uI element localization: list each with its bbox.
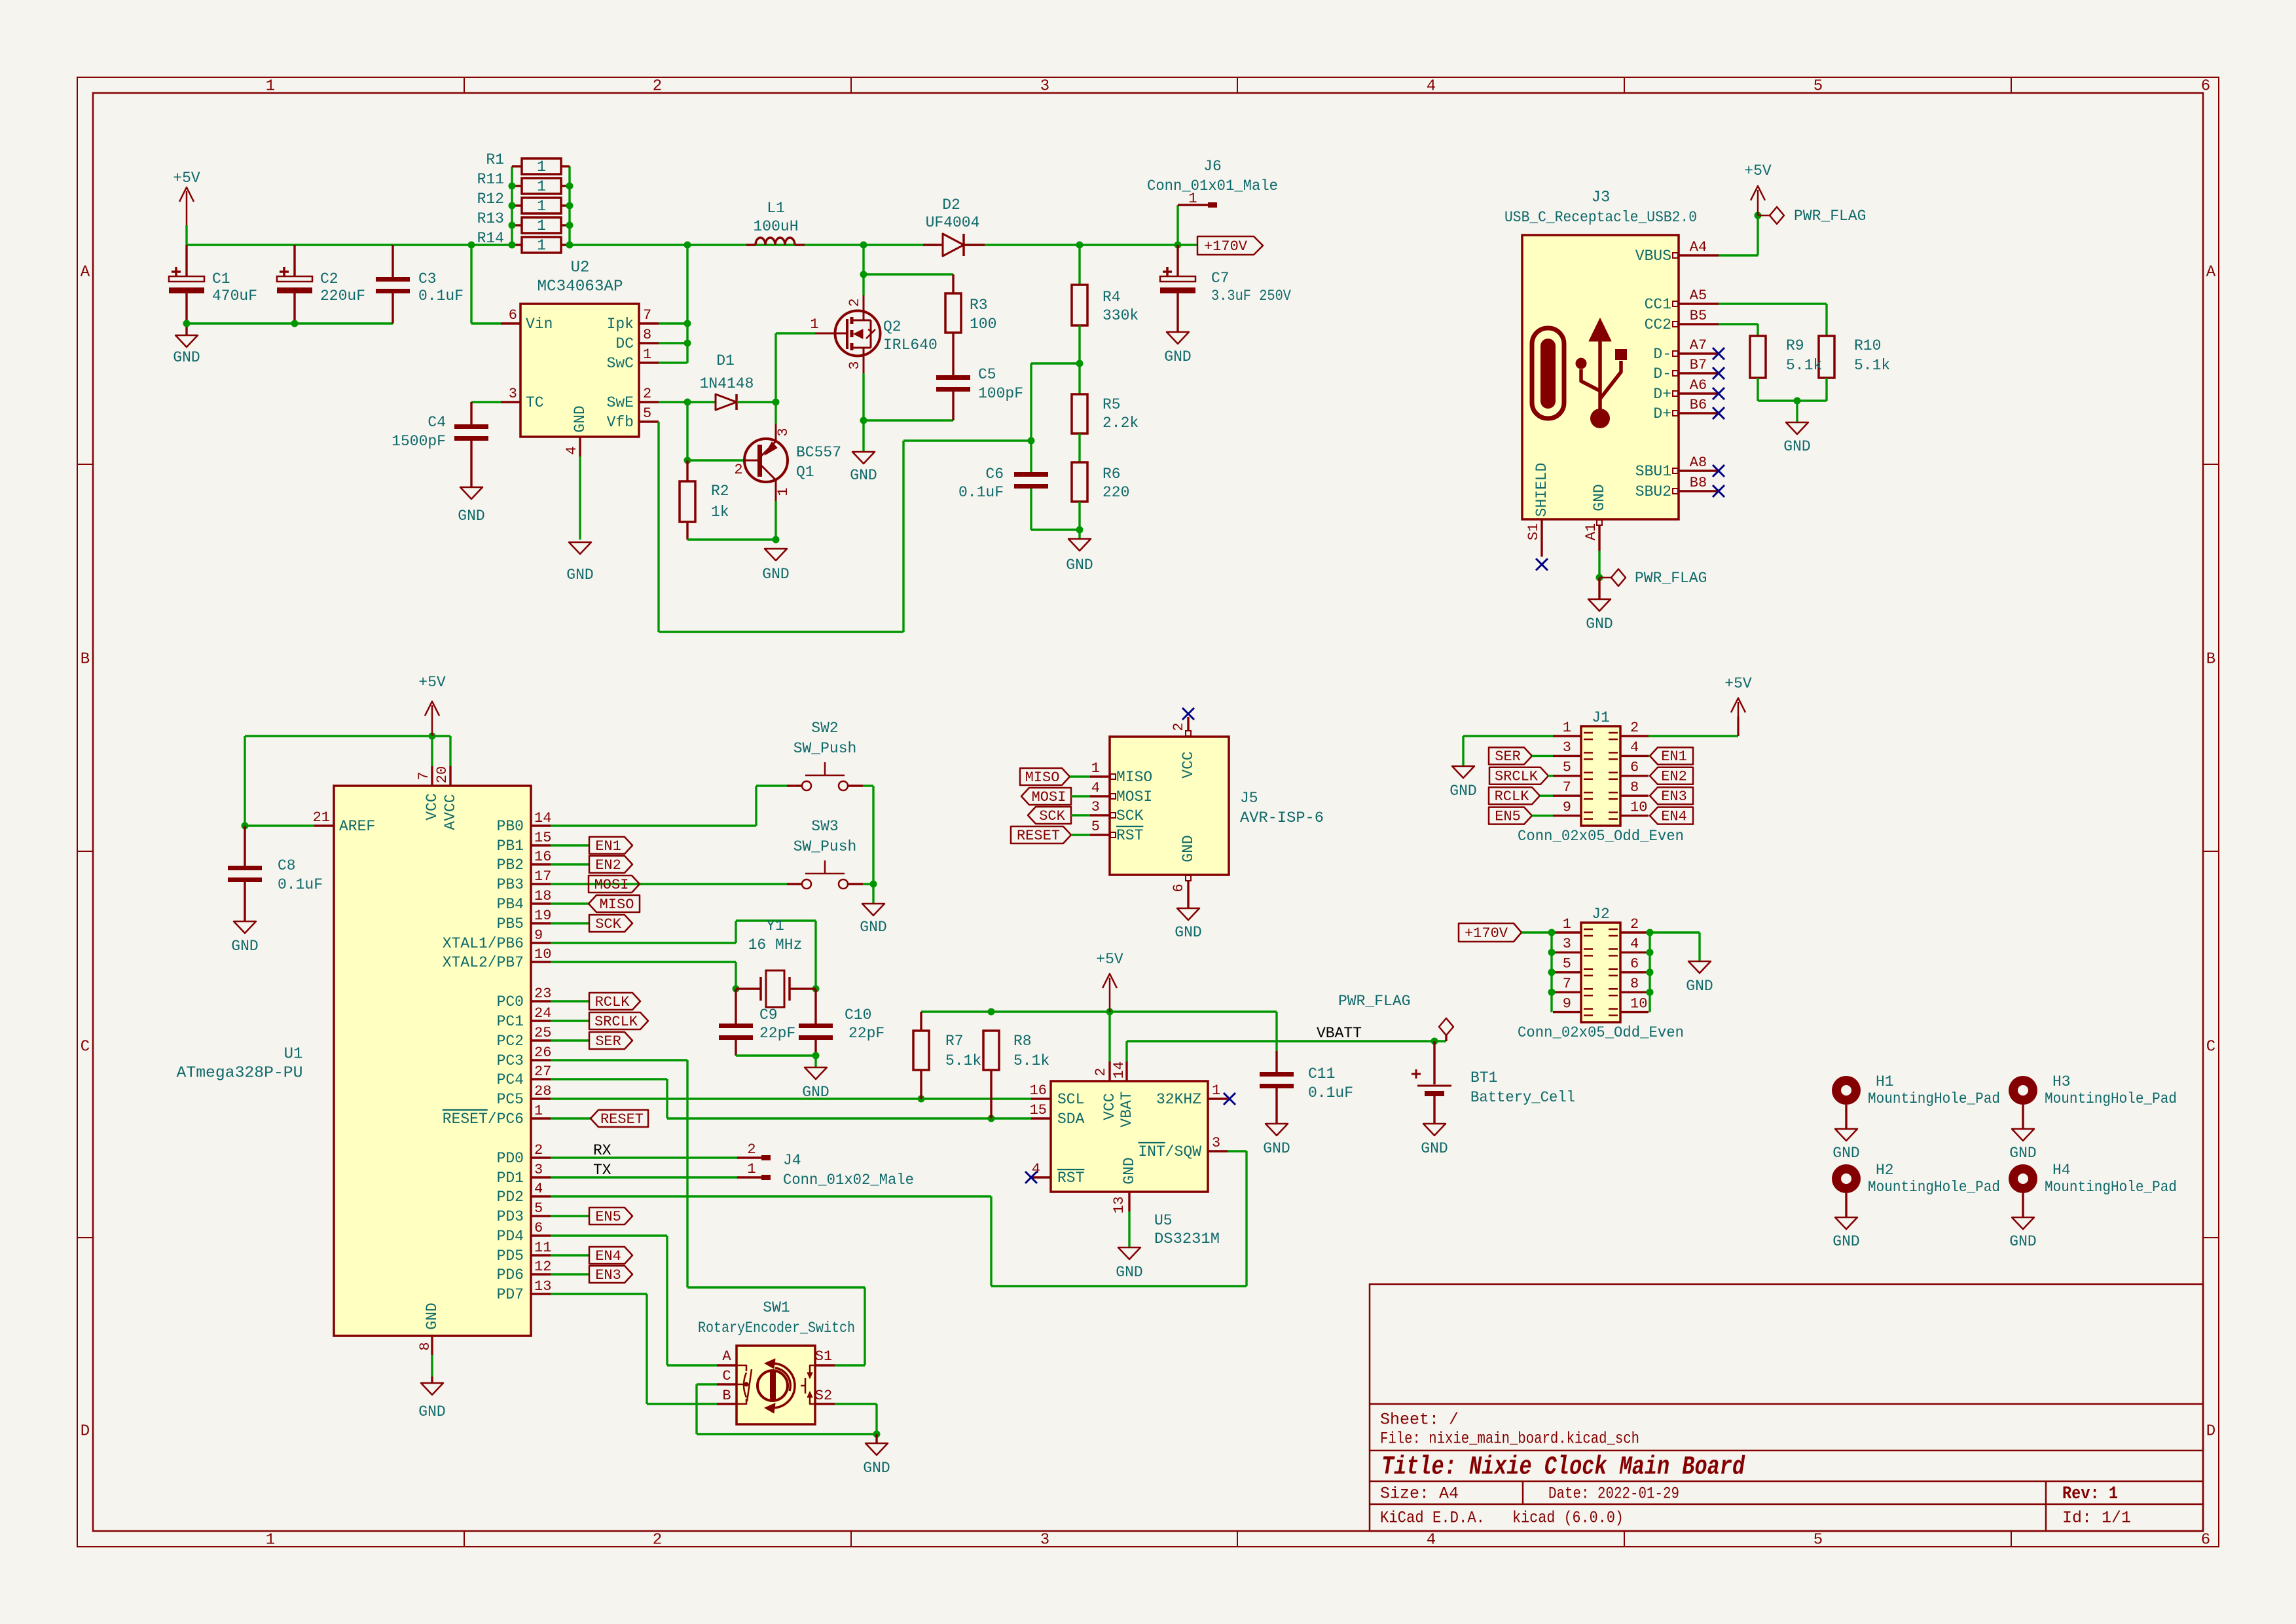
svg-text:0.1uF: 0.1uF	[418, 287, 464, 304]
svg-text:C5: C5	[978, 366, 996, 383]
svg-text:PB1: PB1	[497, 838, 524, 855]
svg-text:220: 220	[1102, 484, 1129, 501]
svg-text:MC34063AP: MC34063AP	[538, 278, 623, 295]
svg-text:USB_C_Receptacle_USB2.0: USB_C_Receptacle_USB2.0	[1504, 209, 1697, 226]
svg-text:SBU2: SBU2	[1635, 483, 1671, 500]
svg-text:D-: D-	[1653, 346, 1671, 363]
svg-text:0.1uF: 0.1uF	[278, 876, 323, 893]
svg-text:4: 4	[1427, 77, 1436, 95]
svg-text:1: 1	[534, 1103, 543, 1119]
svg-text:R10: R10	[1854, 337, 1881, 354]
svg-text:D: D	[81, 1422, 90, 1440]
svg-text:3.3uF 250V: 3.3uF 250V	[1211, 287, 1291, 304]
svg-text:3: 3	[509, 386, 517, 402]
svg-text:VBAT: VBAT	[1118, 1091, 1135, 1127]
svg-text:1: 1	[537, 178, 546, 195]
svg-text:GND: GND	[2009, 1233, 2036, 1250]
svg-text:7: 7	[1563, 976, 1571, 992]
svg-text:5: 5	[1563, 956, 1571, 972]
svg-text:1: 1	[643, 346, 651, 363]
svg-text:SCK: SCK	[1039, 808, 1065, 824]
svg-text:3: 3	[1091, 799, 1100, 815]
svg-text:Rev: 1: Rev: 1	[2062, 1485, 2118, 1504]
svg-text:21: 21	[313, 809, 330, 826]
svg-text:B: B	[2206, 650, 2215, 668]
svg-text:EN4: EN4	[595, 1248, 621, 1264]
svg-text:100uH: 100uH	[753, 218, 798, 235]
svg-text:R9: R9	[1786, 337, 1804, 354]
svg-text:Conn_01x02_Male: Conn_01x02_Male	[783, 1172, 914, 1189]
svg-text:RCLK: RCLK	[1495, 788, 1530, 805]
svg-text:TC: TC	[526, 394, 544, 411]
svg-text:MountingHole_Pad: MountingHole_Pad	[2045, 1090, 2177, 1107]
svg-text:27: 27	[534, 1063, 551, 1080]
svg-text:SCK: SCK	[1116, 807, 1144, 824]
svg-text:A6: A6	[1690, 377, 1707, 394]
svg-text:C3: C3	[418, 270, 437, 287]
svg-text:15: 15	[1030, 1102, 1047, 1118]
svg-text:3: 3	[1212, 1135, 1220, 1151]
svg-text:GND: GND	[863, 1460, 890, 1477]
svg-text:Id: 1/1: Id: 1/1	[2062, 1509, 2131, 1528]
svg-text:GND: GND	[418, 1403, 445, 1420]
svg-text:R4: R4	[1102, 289, 1121, 306]
svg-text:XTAL2/PB7: XTAL2/PB7	[443, 954, 524, 971]
svg-text:GND: GND	[1832, 1233, 1859, 1250]
svg-text:+170V: +170V	[1465, 925, 1508, 942]
svg-text:C9: C9	[759, 1006, 778, 1024]
svg-text:SW1: SW1	[763, 1299, 790, 1316]
svg-text:H2: H2	[1876, 1162, 1894, 1179]
svg-text:2: 2	[1171, 722, 1187, 731]
svg-text:20: 20	[434, 766, 450, 783]
svg-text:EN1: EN1	[1661, 748, 1687, 765]
svg-text:GND: GND	[458, 507, 484, 525]
svg-text:PD0: PD0	[497, 1150, 524, 1167]
svg-text:13: 13	[1111, 1196, 1127, 1213]
svg-text:470uF: 470uF	[212, 287, 257, 304]
svg-text:B: B	[722, 1388, 731, 1404]
svg-text:GND: GND	[1180, 835, 1197, 862]
svg-text:SwC: SwC	[607, 355, 634, 372]
svg-text:1: 1	[1091, 760, 1100, 777]
svg-text:3: 3	[534, 1162, 543, 1178]
svg-text:A: A	[81, 263, 90, 281]
svg-text:+5V: +5V	[1744, 162, 1772, 179]
svg-text:SRCLK: SRCLK	[1495, 769, 1539, 785]
svg-text:C: C	[2206, 1038, 2215, 1056]
svg-text:SW2: SW2	[811, 720, 838, 737]
svg-text:PC5: PC5	[497, 1091, 524, 1108]
svg-text:EN5: EN5	[1495, 808, 1521, 824]
svg-text:Conn_02x05_Odd_Even: Conn_02x05_Odd_Even	[1518, 1024, 1684, 1041]
svg-text:17: 17	[534, 868, 551, 885]
svg-text:7: 7	[416, 771, 432, 780]
svg-text:1: 1	[537, 237, 546, 254]
svg-text:3: 3	[1040, 77, 1049, 95]
svg-text:GND: GND	[424, 1302, 441, 1329]
svg-text:S1: S1	[1525, 523, 1542, 540]
svg-text:6: 6	[534, 1220, 543, 1236]
svg-text:220uF: 220uF	[320, 287, 365, 304]
svg-text:7: 7	[643, 307, 651, 323]
svg-text:C6: C6	[985, 466, 1004, 483]
svg-text:J4: J4	[783, 1152, 801, 1169]
svg-text:VCC: VCC	[1180, 751, 1197, 778]
svg-text:EN3: EN3	[595, 1267, 621, 1283]
svg-text:4: 4	[1630, 739, 1639, 756]
svg-text:PWR_FLAG: PWR_FLAG	[1338, 993, 1410, 1010]
svg-text:A: A	[722, 1348, 731, 1365]
svg-text:1: 1	[537, 158, 546, 175]
svg-text:VCC: VCC	[424, 793, 441, 820]
svg-text:R6: R6	[1102, 466, 1121, 483]
svg-text:RX: RX	[593, 1142, 611, 1159]
svg-text:14: 14	[534, 810, 551, 826]
svg-text:EN2: EN2	[1661, 769, 1687, 785]
svg-text:PB5: PB5	[497, 915, 524, 932]
svg-text:BC557: BC557	[796, 444, 841, 461]
svg-text:UF4004: UF4004	[926, 214, 980, 231]
svg-text:11: 11	[534, 1240, 551, 1256]
svg-text:MISO: MISO	[1025, 769, 1060, 786]
svg-text:2: 2	[653, 1531, 662, 1549]
svg-text:J3: J3	[1592, 189, 1611, 206]
svg-text:A1: A1	[1583, 523, 1599, 540]
svg-text:S1: S1	[815, 1348, 832, 1365]
svg-text:R14: R14	[477, 230, 504, 247]
svg-text:5: 5	[1813, 77, 1823, 95]
svg-text:MountingHole_Pad: MountingHole_Pad	[2045, 1179, 2177, 1196]
svg-text:PD1: PD1	[497, 1170, 524, 1187]
svg-text:ATmega328P-PU: ATmega328P-PU	[177, 1064, 303, 1082]
svg-text:10: 10	[534, 946, 551, 963]
svg-text:9: 9	[1563, 799, 1571, 815]
svg-text:7: 7	[1563, 779, 1571, 796]
svg-text:KiCad E.D.A.: KiCad E.D.A.	[1380, 1509, 1485, 1528]
svg-text:22pF: 22pF	[759, 1025, 795, 1042]
svg-text:14: 14	[1111, 1061, 1127, 1079]
svg-text:6: 6	[509, 307, 517, 323]
svg-text:15: 15	[534, 830, 551, 846]
svg-text:B5: B5	[1690, 308, 1707, 324]
svg-text:D-: D-	[1653, 365, 1671, 382]
svg-text:3: 3	[1563, 936, 1571, 952]
svg-text:R1: R1	[486, 151, 504, 168]
svg-text:8: 8	[417, 1342, 433, 1350]
svg-text:16: 16	[534, 849, 551, 865]
svg-text:U2: U2	[571, 259, 590, 276]
svg-text:8: 8	[643, 327, 651, 343]
svg-text:5: 5	[534, 1200, 543, 1217]
svg-text:1k: 1k	[711, 504, 729, 521]
svg-text:26: 26	[534, 1044, 551, 1061]
svg-text:GND: GND	[1832, 1145, 1859, 1162]
svg-text:EN5: EN5	[595, 1209, 621, 1225]
svg-text:CC1: CC1	[1645, 296, 1671, 313]
svg-text:24: 24	[534, 1005, 551, 1022]
svg-text:C1: C1	[212, 270, 230, 287]
svg-text:+5V: +5V	[418, 674, 446, 691]
svg-text:2: 2	[747, 1141, 756, 1158]
svg-text:1: 1	[1212, 1082, 1220, 1099]
svg-text:PC1: PC1	[497, 1013, 524, 1030]
svg-text:B8: B8	[1690, 475, 1707, 491]
svg-text:330k: 330k	[1102, 307, 1139, 324]
svg-text:5: 5	[1091, 819, 1100, 835]
svg-text:GND: GND	[860, 919, 886, 936]
svg-text:Date: 2022-01-29: Date: 2022-01-29	[1548, 1485, 1679, 1504]
svg-text:1: 1	[775, 487, 792, 496]
svg-text:SW_Push: SW_Push	[793, 838, 857, 855]
svg-text:DC: DC	[615, 335, 634, 352]
svg-text:D+: D+	[1653, 405, 1671, 422]
svg-text:SHIELD: SHIELD	[1533, 463, 1550, 517]
svg-text:GND: GND	[173, 349, 200, 366]
svg-text:L1: L1	[767, 200, 785, 217]
svg-text:R7: R7	[945, 1033, 964, 1050]
svg-text:RESET/PC6: RESET/PC6	[443, 1111, 524, 1128]
svg-text:PB2: PB2	[497, 857, 524, 874]
svg-text:GND: GND	[231, 938, 258, 955]
svg-text:VBUS: VBUS	[1635, 248, 1671, 265]
svg-text:VBATT: VBATT	[1317, 1025, 1362, 1042]
svg-text:Y1: Y1	[766, 917, 784, 934]
svg-text:H4: H4	[2052, 1162, 2071, 1179]
svg-text:GND: GND	[1121, 1157, 1138, 1184]
svg-text:PD6: PD6	[497, 1266, 524, 1283]
svg-text:AREF: AREF	[339, 818, 375, 835]
svg-text:4: 4	[1630, 936, 1639, 952]
svg-text:16 MHz: 16 MHz	[748, 936, 803, 953]
svg-text:1: 1	[537, 217, 546, 234]
svg-text:PC4: PC4	[497, 1071, 524, 1088]
svg-text:R13: R13	[477, 210, 504, 227]
svg-text:AVCC: AVCC	[442, 794, 459, 830]
svg-text:SRCLK: SRCLK	[594, 1014, 638, 1030]
svg-text:10: 10	[1630, 799, 1647, 815]
svg-text:R11: R11	[477, 171, 504, 188]
svg-text:PD5: PD5	[497, 1247, 524, 1264]
svg-text:Q2: Q2	[883, 318, 902, 335]
svg-text:H1: H1	[1876, 1073, 1894, 1090]
svg-text:1N4148: 1N4148	[700, 375, 754, 392]
svg-text:3: 3	[775, 428, 792, 436]
svg-text:VCC: VCC	[1101, 1093, 1118, 1120]
svg-text:SBU1: SBU1	[1635, 463, 1671, 480]
svg-text:3: 3	[1040, 1531, 1049, 1549]
svg-text:AVR-ISP-6: AVR-ISP-6	[1240, 809, 1324, 826]
svg-text:SCL: SCL	[1057, 1091, 1084, 1108]
svg-text:6: 6	[2201, 77, 2210, 95]
svg-text:+5V: +5V	[173, 170, 200, 187]
svg-text:MISO: MISO	[1116, 769, 1152, 786]
svg-text:GND: GND	[1066, 557, 1093, 574]
svg-text:8: 8	[1630, 976, 1639, 992]
svg-text:6: 6	[1630, 956, 1639, 972]
svg-text:A4: A4	[1690, 239, 1707, 255]
svg-text:18: 18	[534, 888, 551, 904]
svg-text:U5: U5	[1154, 1212, 1173, 1229]
svg-text:2: 2	[534, 1142, 543, 1158]
svg-text:PWR_FLAG: PWR_FLAG	[1794, 208, 1866, 225]
svg-text:5: 5	[1563, 760, 1571, 776]
svg-text:MountingHole_Pad: MountingHole_Pad	[1868, 1090, 2000, 1107]
svg-text:5.1k: 5.1k	[1013, 1052, 1049, 1069]
svg-text:5: 5	[1813, 1531, 1823, 1549]
svg-text:1: 1	[266, 1531, 275, 1549]
svg-text:S2: S2	[815, 1388, 832, 1404]
svg-text:4: 4	[1091, 780, 1100, 796]
svg-text:PD3: PD3	[497, 1208, 524, 1225]
svg-text:22pF: 22pF	[848, 1025, 884, 1042]
svg-text:9: 9	[1563, 995, 1571, 1012]
svg-text:kicad (6.0.0): kicad (6.0.0)	[1512, 1509, 1624, 1528]
svg-text:19: 19	[534, 908, 551, 924]
svg-text:PB0: PB0	[497, 818, 524, 835]
svg-text:MountingHole_Pad: MountingHole_Pad	[1868, 1179, 2000, 1196]
svg-text:J6: J6	[1203, 158, 1222, 175]
svg-text:C7: C7	[1211, 270, 1230, 287]
svg-text:RESET: RESET	[600, 1111, 644, 1128]
svg-text:MISO: MISO	[600, 896, 634, 913]
svg-text:GND: GND	[1164, 348, 1191, 365]
svg-text:RotaryEncoder_Switch: RotaryEncoder_Switch	[698, 1319, 855, 1337]
svg-text:GND: GND	[572, 405, 589, 432]
svg-text:GND: GND	[1263, 1140, 1290, 1157]
svg-text:5.1k: 5.1k	[1854, 357, 1890, 374]
svg-text:2: 2	[1630, 916, 1639, 932]
svg-text:GND: GND	[762, 566, 789, 583]
svg-text:PWR_FLAG: PWR_FLAG	[1635, 570, 1707, 587]
svg-text:Vfb: Vfb	[607, 414, 634, 431]
svg-text:PD7: PD7	[497, 1286, 524, 1303]
svg-text:EN1: EN1	[595, 838, 621, 855]
svg-text:9: 9	[534, 927, 543, 944]
svg-text:U1: U1	[284, 1045, 303, 1063]
svg-text:2: 2	[847, 298, 863, 306]
svg-text:R3: R3	[970, 297, 988, 314]
svg-text:6: 6	[1171, 883, 1187, 892]
svg-text:C2: C2	[320, 270, 338, 287]
svg-text:2: 2	[1630, 720, 1639, 736]
svg-text:GND: GND	[2009, 1145, 2036, 1162]
svg-text:6: 6	[1630, 760, 1639, 776]
svg-text:EN3: EN3	[1661, 788, 1687, 805]
svg-text:100: 100	[970, 316, 996, 333]
svg-text:Conn_02x05_Odd_Even: Conn_02x05_Odd_Even	[1518, 828, 1684, 845]
svg-text:BT1: BT1	[1470, 1069, 1497, 1086]
svg-text:DS3231M: DS3231M	[1154, 1230, 1220, 1247]
svg-text:0.1uF: 0.1uF	[958, 484, 1004, 501]
svg-text:4: 4	[564, 446, 580, 454]
svg-text:1: 1	[266, 77, 275, 95]
svg-text:GND: GND	[1449, 783, 1476, 800]
svg-text:SW3: SW3	[811, 818, 838, 835]
svg-text:2: 2	[653, 77, 662, 95]
svg-text:A8: A8	[1690, 454, 1707, 471]
svg-text:R8: R8	[1013, 1033, 1032, 1050]
svg-text:10: 10	[1630, 995, 1647, 1012]
svg-text:RST: RST	[1057, 1170, 1084, 1187]
svg-text:A7: A7	[1690, 337, 1707, 354]
svg-text:A5: A5	[1690, 287, 1707, 304]
svg-text:+170V: +170V	[1204, 238, 1248, 255]
svg-text:Ipk: Ipk	[607, 316, 634, 333]
svg-text:J1: J1	[1592, 709, 1610, 726]
svg-text:SER: SER	[595, 1033, 621, 1050]
svg-text:IRL640: IRL640	[883, 337, 938, 354]
svg-text:2: 2	[1093, 1067, 1109, 1076]
svg-text:GND: GND	[850, 467, 877, 484]
svg-text:Conn_01x01_Male: Conn_01x01_Male	[1147, 177, 1278, 194]
svg-text:2.2k: 2.2k	[1102, 415, 1139, 432]
svg-text:25: 25	[534, 1025, 551, 1041]
svg-text:6: 6	[2201, 1531, 2210, 1549]
svg-text:0.1uF: 0.1uF	[1308, 1084, 1353, 1101]
svg-text:SW_Push: SW_Push	[793, 740, 857, 757]
svg-text:TX: TX	[593, 1162, 611, 1179]
svg-text:J2: J2	[1592, 906, 1610, 923]
svg-text:RST: RST	[1116, 827, 1143, 844]
svg-text:PD4: PD4	[497, 1228, 524, 1245]
svg-text:B: B	[81, 650, 90, 668]
svg-text:D2: D2	[942, 196, 960, 213]
svg-text:PC3: PC3	[497, 1052, 524, 1069]
svg-text:32KHZ: 32KHZ	[1156, 1091, 1201, 1108]
svg-text:D1: D1	[716, 352, 735, 369]
svg-text:C4: C4	[428, 414, 446, 431]
svg-text:RESET: RESET	[1017, 828, 1060, 844]
svg-text:A: A	[2206, 263, 2216, 281]
svg-text:C: C	[722, 1368, 731, 1384]
svg-text:28: 28	[534, 1083, 551, 1099]
svg-text:INT/SQW: INT/SQW	[1138, 1143, 1201, 1160]
svg-text:RCLK: RCLK	[595, 994, 630, 1010]
svg-text:EN4: EN4	[1661, 808, 1687, 824]
svg-text:PD2: PD2	[497, 1189, 524, 1206]
svg-text:+5V: +5V	[1724, 675, 1752, 692]
svg-text:C8: C8	[278, 857, 296, 874]
svg-text:GND: GND	[1586, 616, 1613, 633]
svg-text:100pF: 100pF	[978, 385, 1023, 402]
svg-text:R5: R5	[1102, 396, 1121, 413]
svg-text:Sheet: /: Sheet: /	[1380, 1411, 1459, 1430]
svg-text:Q1: Q1	[796, 464, 814, 481]
svg-text:Vin: Vin	[526, 316, 553, 333]
svg-text:EN2: EN2	[595, 857, 621, 874]
svg-text:GND: GND	[1116, 1264, 1142, 1281]
svg-text:MOSI: MOSI	[1116, 788, 1152, 805]
svg-text:D: D	[2206, 1422, 2215, 1440]
svg-text:B7: B7	[1690, 357, 1707, 373]
svg-text:MOSI: MOSI	[1032, 789, 1066, 805]
svg-text:23: 23	[534, 986, 551, 1002]
svg-text:SwE: SwE	[607, 394, 634, 411]
svg-text:4: 4	[1427, 1531, 1436, 1549]
svg-text:+5V: +5V	[1096, 951, 1123, 968]
svg-text:GND: GND	[1783, 438, 1810, 455]
svg-text:SCK: SCK	[595, 916, 621, 932]
svg-text:3: 3	[1563, 739, 1571, 756]
svg-text:5.1k: 5.1k	[945, 1052, 981, 1069]
svg-text:4: 4	[534, 1181, 543, 1197]
svg-text:5: 5	[643, 405, 651, 422]
svg-text:SDA: SDA	[1057, 1111, 1085, 1128]
svg-text:5.1k: 5.1k	[1786, 357, 1822, 374]
svg-text:3: 3	[847, 361, 863, 369]
svg-text:B6: B6	[1690, 397, 1707, 413]
